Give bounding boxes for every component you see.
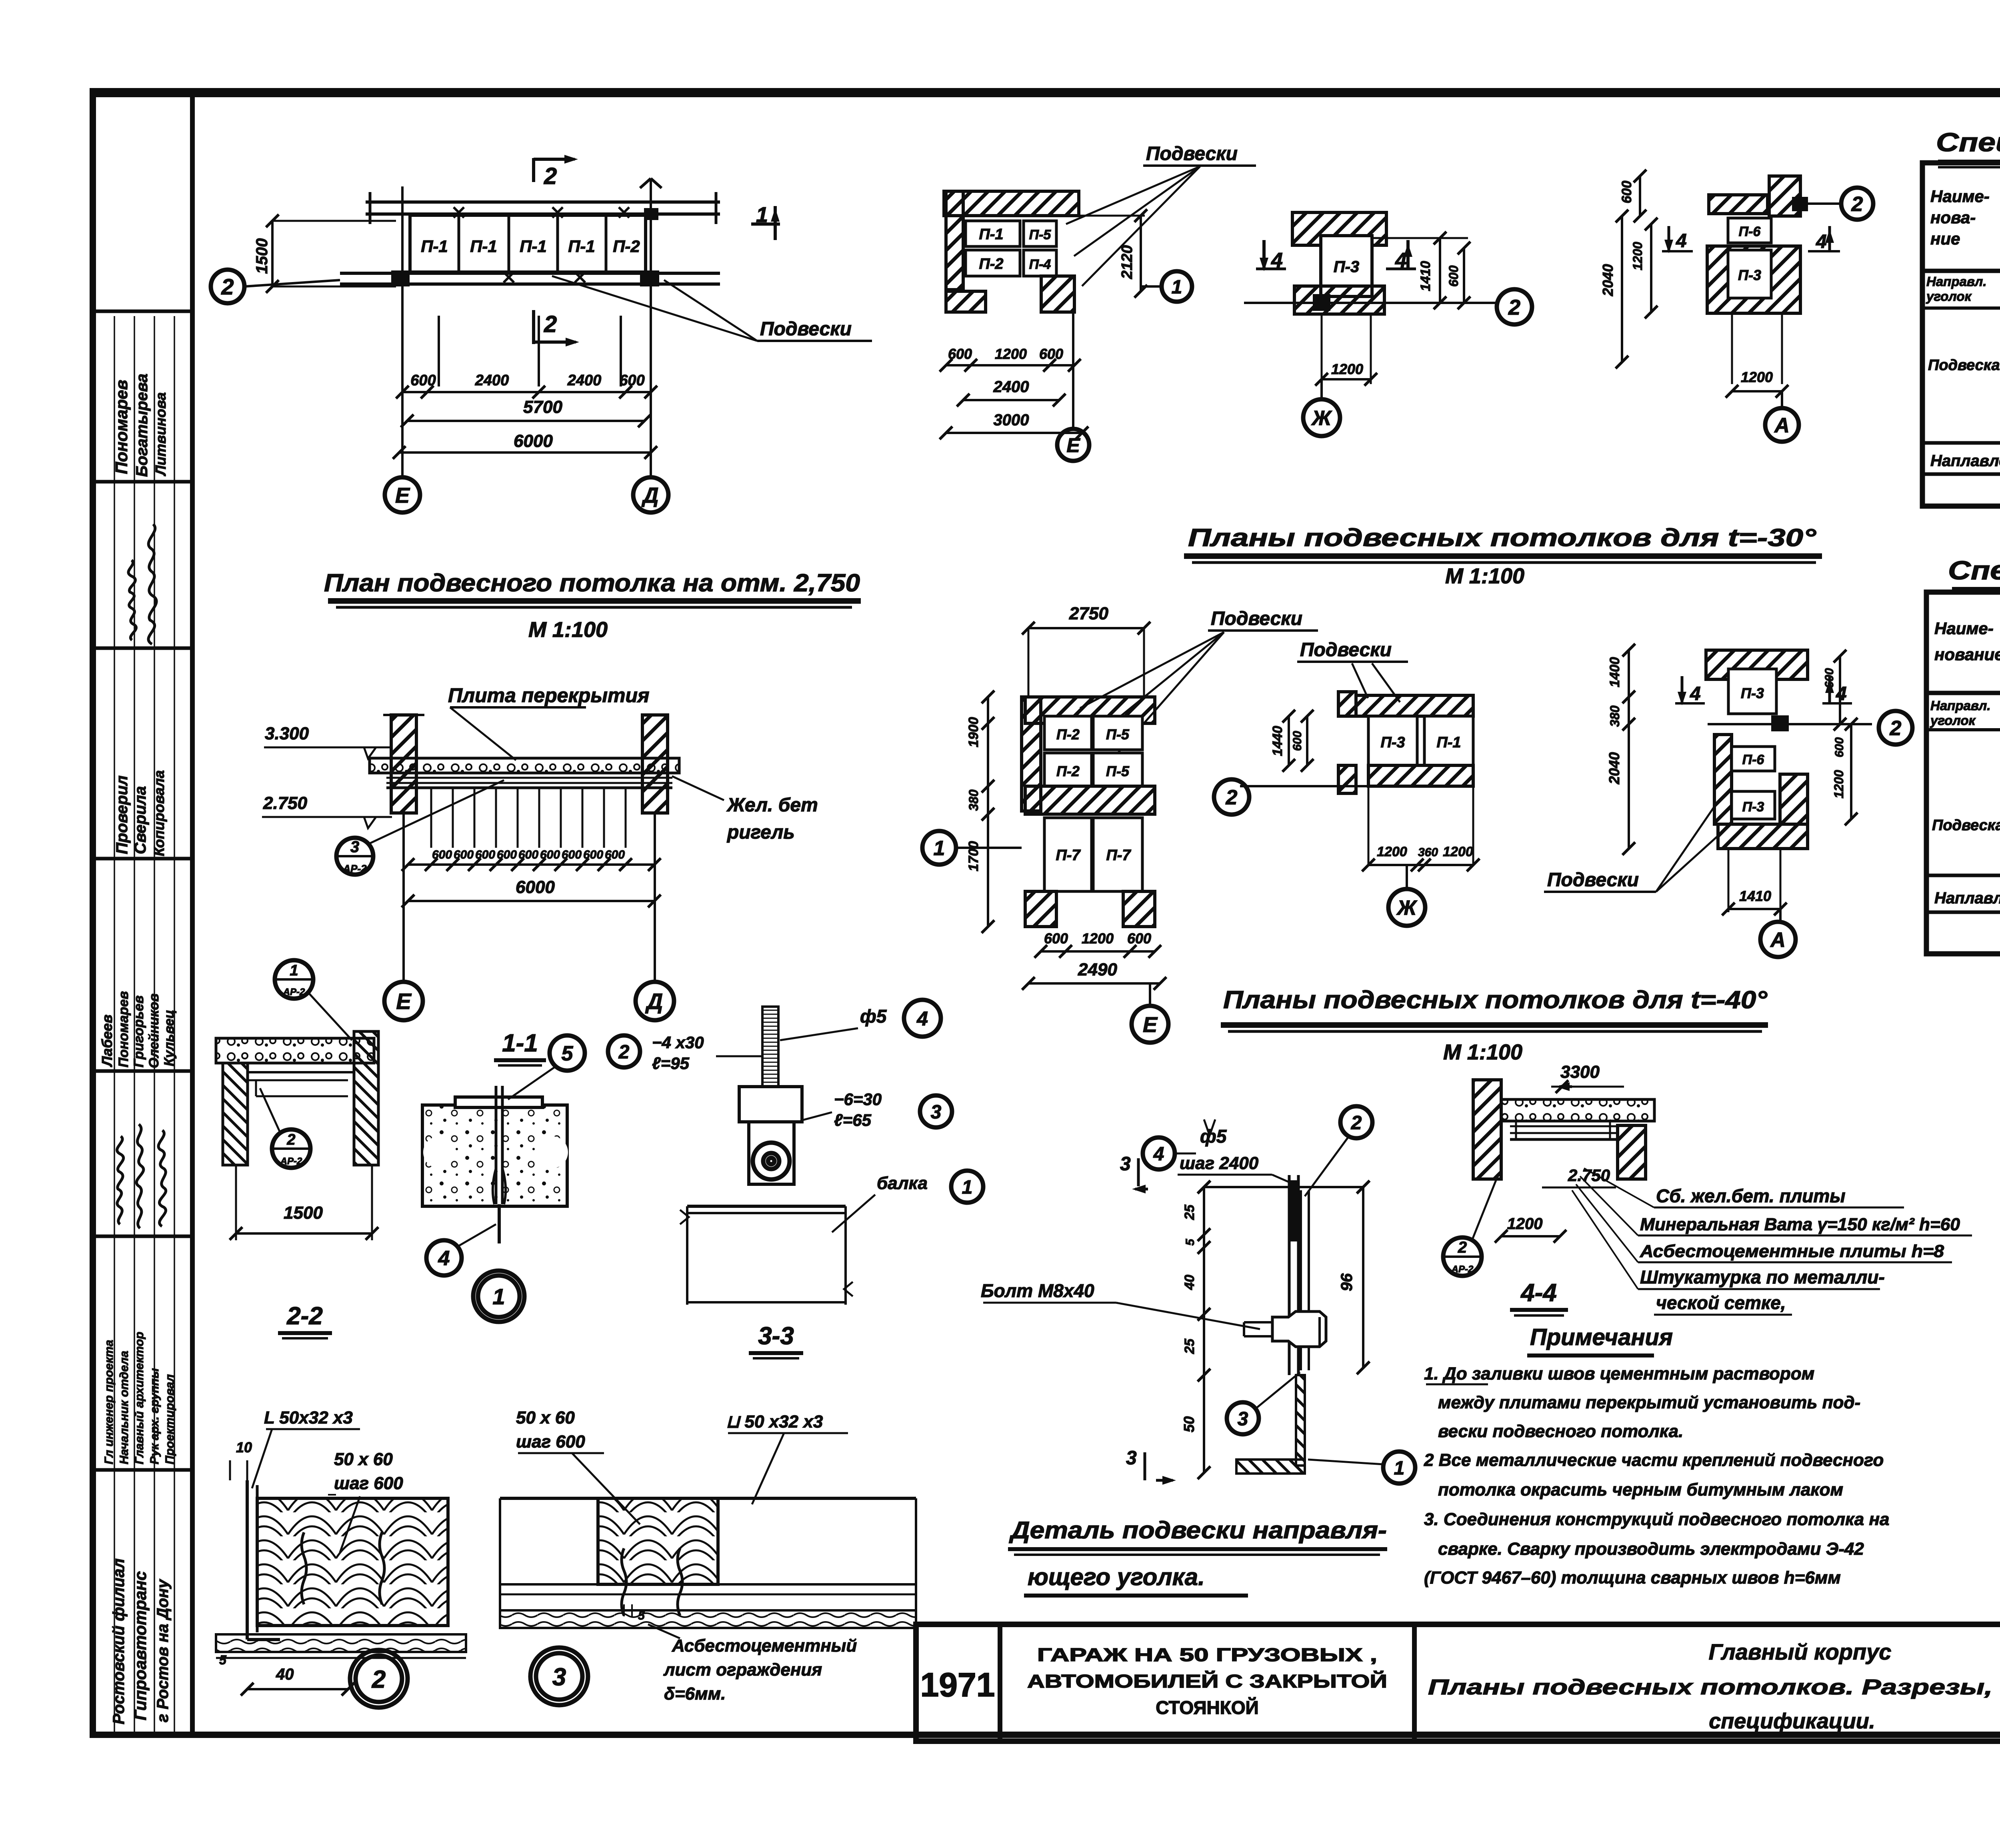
svg-text:3: 3 <box>350 838 359 856</box>
svg-text:П-7: П-7 <box>1056 847 1081 864</box>
svg-text:1971: 1971 <box>920 1666 995 1704</box>
svg-text:Подвески: Подвески <box>1547 869 1639 891</box>
detail 2: asbestos sheet band <box>216 1634 466 1652</box>
svg-text:Жел. бет: Жел. бет <box>726 795 818 816</box>
svg-text:Ж: Ж <box>1311 407 1332 430</box>
svg-text:96: 96 <box>1338 1273 1356 1291</box>
svg-text:4-4: 4-4 <box>1520 1279 1557 1307</box>
svg-text:СТОЯНКОЙ: СТОЯНКОЙ <box>1156 1697 1258 1718</box>
plan t-40 E: bottom pads hatch <box>1025 891 1056 927</box>
svg-text:ригель: ригель <box>726 822 795 843</box>
svg-text:600: 600 <box>1823 668 1836 688</box>
svg-text:Деталь подвески направля-: Деталь подвески направля- <box>1009 1517 1387 1544</box>
svg-text:25: 25 <box>1182 1338 1197 1354</box>
svg-text:Планы подвесных потолков. Ра: Планы подвесных потолков. Разрезы, Узлы. <box>1428 1675 2000 1699</box>
svg-text:1200: 1200 <box>1630 242 1645 270</box>
svg-text:1900: 1900 <box>966 717 981 747</box>
svg-text:Ж: Ж <box>1396 897 1418 920</box>
plan top-left: grid circle Е <box>385 477 420 513</box>
svg-text:1700: 1700 <box>966 841 981 871</box>
svg-text:5: 5 <box>562 1042 574 1065</box>
svg-text:Подвеска: Подвеска <box>1928 357 2000 374</box>
plan top-left: plate row <box>410 215 646 272</box>
svg-text:3: 3 <box>931 1101 942 1123</box>
svg-text:Д: Д <box>645 989 663 1014</box>
node E t-30: plates П-1 П-5 П-2 П-4 <box>966 221 1020 246</box>
svg-text:2400: 2400 <box>567 372 602 389</box>
plan t-40 Ж: grid circle Ж <box>1406 865 1408 889</box>
svg-text:600: 600 <box>1291 731 1304 751</box>
svg-text:2: 2 <box>1226 786 1238 809</box>
svg-text:4: 4 <box>1676 230 1687 252</box>
plan top-left: grid line E vertical <box>401 186 404 478</box>
svg-text:Проектировал: Проектировал <box>163 1374 176 1464</box>
svg-text:3: 3 <box>1126 1448 1137 1469</box>
svg-text:Подвески: Подвески <box>760 318 852 340</box>
svg-text:600: 600 <box>1127 930 1151 947</box>
node А t-30: plate П-3 <box>1728 250 1771 298</box>
svg-text:2: 2 <box>286 1131 295 1148</box>
detail 3-3: eye bolt <box>753 1143 790 1179</box>
title block <box>916 1624 2000 1741</box>
svg-text:Спецификация стали для t=-40°: Спецификация стали для t=-40° <box>1948 555 2000 585</box>
plan t-40 А: section mark 4 right <box>1828 676 1831 702</box>
svg-text:АР-2: АР-2 <box>280 1156 302 1167</box>
svg-text:П-2: П-2 <box>613 237 640 256</box>
section 4-4: top slab <box>1501 1099 1654 1121</box>
plan t-40 А: plate П-3 top <box>1728 669 1776 714</box>
stamp strip inner columns <box>114 316 115 1735</box>
svg-text:25: 25 <box>1182 1204 1197 1220</box>
svg-text:2: 2 <box>544 163 557 189</box>
svg-text:уголок: уголок <box>1926 289 1972 304</box>
svg-text:⊔ 50 x32 x3: ⊔ 50 x32 x3 <box>726 1412 823 1432</box>
svg-text:3300: 3300 <box>1560 1062 1600 1082</box>
plan t-40 E: top wall hatch <box>1025 697 1155 723</box>
detail 3: channel lines <box>500 1583 916 1586</box>
svg-text:3. Соединения конструкций по: 3. Соединения конструкций подвесного пот… <box>1424 1510 1890 1529</box>
svg-text:2750: 2750 <box>1069 604 1108 623</box>
hanger detail: bolt with nut <box>1272 1311 1326 1347</box>
plan t-40 А: grid circle А <box>1779 909 1782 922</box>
svg-text:Пономарев: Пономарев <box>112 380 131 474</box>
svg-text:Главный корпус: Главный корпус <box>1709 1639 1892 1664</box>
node А t-30: dim 1200 below <box>1731 314 1733 384</box>
svg-text:П-1: П-1 <box>520 237 547 256</box>
svg-text:1200: 1200 <box>1331 361 1363 377</box>
svg-text:2490: 2490 <box>1078 960 1117 979</box>
svg-text:Асбестоцементные плиты h=8: Асбестоцементные плиты h=8 <box>1640 1241 1944 1261</box>
svg-text:Подвеска: Подвеска <box>1932 817 2000 834</box>
detail 1: concrete block <box>422 1105 567 1206</box>
plan t-40 Ж: plates П-3 П-1 <box>1368 716 1417 765</box>
plan top-left: rails top <box>366 200 720 204</box>
svg-text:1: 1 <box>1172 276 1182 298</box>
section 4-4: circle 2/АР <box>1443 1237 1482 1276</box>
svg-text:4: 4 <box>916 1007 928 1030</box>
node А t-30: grid circle А <box>1781 391 1783 408</box>
svg-text:5700: 5700 <box>523 397 562 417</box>
svg-text:П-3: П-3 <box>1738 267 1761 283</box>
svg-text:2120: 2120 <box>1119 245 1136 280</box>
svg-text:П-7: П-7 <box>1106 847 1131 864</box>
svg-text:спецификации.: спецификации. <box>1709 1709 1875 1733</box>
node Ж t-30: grid circle Ж <box>1320 379 1323 400</box>
plan t-40 А: right hatch column <box>1780 774 1808 824</box>
svg-text:2400: 2400 <box>993 378 1029 396</box>
detail 1: anchor bolt <box>495 1086 498 1204</box>
svg-text:1200: 1200 <box>1443 844 1473 859</box>
svg-text:шаг 2400: шаг 2400 <box>1180 1153 1259 1173</box>
svg-text:5: 5 <box>219 1653 227 1667</box>
svg-text:Литвинова: Литвинова <box>152 392 169 477</box>
stamp strip signatures 2 <box>117 1136 124 1224</box>
svg-text:М 1:100: М 1:100 <box>528 618 608 642</box>
svg-text:Рук арх. группы: Рук арх. группы <box>148 1368 161 1464</box>
node Ж t-30: plate П-3 <box>1321 236 1372 296</box>
detail 3-3: beam <box>687 1205 846 1208</box>
svg-text:А: А <box>1774 414 1790 437</box>
hanger detail: left dim chain <box>1203 1187 1205 1473</box>
svg-text:2: 2 <box>221 274 234 299</box>
section 1-1: right column hatch <box>642 715 668 813</box>
hanger detail: top dim line <box>1204 1186 1363 1188</box>
svg-text:6000: 6000 <box>516 877 555 897</box>
svg-text:2.750: 2.750 <box>263 793 308 813</box>
svg-text:М 1:100: М 1:100 <box>1443 1040 1522 1064</box>
plan top-left: grid line Д vertical <box>650 178 652 478</box>
svg-text:10: 10 <box>236 1439 252 1456</box>
detail 1: circle 5 label <box>550 1035 585 1071</box>
svg-text:М 1:100: М 1:100 <box>1445 564 1524 588</box>
svg-text:П-2: П-2 <box>979 256 1003 272</box>
svg-text:П-3: П-3 <box>1334 258 1359 276</box>
svg-text:1: 1 <box>1394 1458 1405 1479</box>
svg-text:Олейников: Олейников <box>146 993 162 1068</box>
svg-text:Примечания: Примечания <box>1530 1324 1673 1350</box>
svg-text:Лабеев: Лабеев <box>99 1015 115 1067</box>
frame top edge thick <box>93 88 2000 97</box>
node E t-30: left wall hatch <box>946 191 963 290</box>
svg-text:Наплавленный металл,болты,гай: Наплавленный металл,болты,гайки, шайбы <box>1930 452 2000 470</box>
svg-text:П-3: П-3 <box>1380 734 1405 751</box>
plan t-40 E: plates П-7 П-7 <box>1044 818 1092 891</box>
svg-text:Направл.: Направл. <box>1926 274 1986 289</box>
detail 2-2 top: circle 1/АР <box>275 960 313 999</box>
svg-text:балка: балка <box>877 1173 928 1193</box>
plan t-40 А: grid line + circle 2 <box>1708 723 1872 725</box>
svg-text:4: 4 <box>1816 231 1827 252</box>
svg-text:П-1: П-1 <box>979 226 1003 243</box>
svg-text:50: 50 <box>1181 1416 1197 1432</box>
svg-text:уголок: уголок <box>1930 713 1976 728</box>
svg-text:Асбестоцементный: Асбестоцементный <box>672 1636 857 1656</box>
svg-text:Копировала: Копировала <box>151 770 167 856</box>
svg-text:1500: 1500 <box>253 238 271 274</box>
svg-text:3000: 3000 <box>994 411 1029 429</box>
hanger detail: circle 2 leader <box>1340 1106 1372 1138</box>
svg-text:Д: Д <box>642 483 659 507</box>
detail 2-2 top: left angle hatch <box>223 1063 248 1165</box>
svg-text:П-5: П-5 <box>1029 227 1052 242</box>
svg-text:5: 5 <box>1184 1238 1197 1245</box>
section 4-4: left wall hatch <box>1473 1080 1501 1179</box>
svg-text:Планы подвесных потолков дл: Планы подвесных потолков для t=-40° <box>1223 986 1768 1014</box>
node Ж t-30: lower wall hatch <box>1294 286 1384 314</box>
node Ж t-30: top wall hatch <box>1292 212 1386 245</box>
svg-text:П-3: П-3 <box>1741 685 1764 701</box>
svg-text:Плита перекрытия: Плита перекрытия <box>448 684 650 707</box>
steel spec table t=-30 grid <box>1922 163 2000 506</box>
svg-text:Кульвец: Кульвец <box>162 1010 177 1066</box>
svg-text:600: 600 <box>1044 930 1068 947</box>
plan top-left: hanger ticks <box>438 316 440 386</box>
svg-text:2: 2 <box>1890 717 1902 740</box>
svg-text:ф5: ф5 <box>860 1006 887 1027</box>
svg-text:1200: 1200 <box>1507 1215 1543 1233</box>
node А t-30: grid line + circle 2 <box>1800 202 1840 205</box>
hanger detail: angle bottom <box>1296 1375 1305 1466</box>
plan t-40 Ж: bottom hatch <box>1368 765 1473 786</box>
detail 3: asbestos band <box>500 1610 916 1628</box>
svg-text:П-1: П-1 <box>470 237 497 256</box>
section 1-1: left column hatch <box>391 715 416 813</box>
svg-text:Планы подвесных потолков дл: Планы подвесных потолков для t=-30° <box>1188 524 1817 552</box>
plan top-left: x-marks on rails <box>454 207 464 218</box>
svg-text:нование: нование <box>1934 645 2000 664</box>
detail 3: wood block <box>598 1498 718 1584</box>
section 1-1: grid circles Е Д <box>402 813 405 981</box>
svg-text:Подвески: Подвески <box>1300 639 1392 661</box>
plan t-40 А: top hatch <box>1706 650 1808 679</box>
detail 2: wood block with grain <box>257 1498 448 1626</box>
section 1-1: slab with aggregate <box>370 758 679 773</box>
detail 3-3: threaded rod <box>762 1007 778 1087</box>
svg-text:ющего уголка.: ющего уголка. <box>1028 1564 1205 1590</box>
stamp strip horizontal dividers <box>93 310 192 313</box>
svg-text:1440: 1440 <box>1270 726 1285 756</box>
svg-text:3: 3 <box>552 1663 566 1691</box>
svg-text:40: 40 <box>1182 1275 1197 1290</box>
detail 3-3: clamp body <box>739 1087 802 1122</box>
svg-text:ние: ние <box>1930 229 1960 248</box>
svg-text:2040: 2040 <box>1606 752 1622 785</box>
svg-text:1: 1 <box>290 962 298 979</box>
svg-text:Наиме-: Наиме- <box>1930 187 1990 206</box>
svg-text:Пономарев: Пономарев <box>116 991 131 1067</box>
detail 3: anchor screws <box>622 1548 626 1616</box>
svg-text:Минеральная Вата γ=150 кг/м² h: Минеральная Вата γ=150 кг/м² h=60 <box>1640 1215 1960 1234</box>
svg-text:Сб. жел.бет. плиты: Сб. жел.бет. плиты <box>1656 1185 1846 1206</box>
section 1-1: hangers <box>430 788 432 848</box>
svg-text:360: 360 <box>1418 846 1438 859</box>
svg-text:А: А <box>1770 929 1786 952</box>
svg-text:4: 4 <box>1690 683 1701 705</box>
svg-text:Е: Е <box>1143 1013 1158 1037</box>
section 1-1: ceiling layers <box>386 777 672 779</box>
detail 2-2 top: right wall hatch <box>354 1031 378 1165</box>
svg-text:600: 600 <box>1446 265 1461 287</box>
svg-text:3.300: 3.300 <box>265 724 309 743</box>
svg-text:2: 2 <box>1508 295 1520 319</box>
svg-text:1410: 1410 <box>1418 261 1433 291</box>
svg-text:1500: 1500 <box>284 1203 323 1223</box>
svg-text:АВТОМОБИЛЕЙ С ЗАКРЫТОЙ: АВТОМОБИЛЕЙ С ЗАКРЫТОЙ <box>1027 1671 1387 1692</box>
detail 3-3: labels left <box>608 1035 640 1067</box>
node А t-30: top hatches <box>1709 195 1768 214</box>
svg-text:Гипроавтотранс: Гипроавтотранс <box>131 1571 150 1720</box>
stamp strip right border <box>190 91 195 1735</box>
svg-text:6000: 6000 <box>514 431 553 451</box>
svg-text:600: 600 <box>1833 737 1846 757</box>
plan t-40 А: section mark 4 left <box>1681 676 1684 702</box>
svg-text:нова-: нова- <box>1930 208 1976 227</box>
svg-text:П-5: П-5 <box>1106 726 1130 743</box>
detail 1: top plate <box>455 1097 542 1107</box>
svg-text:вески подвесного потолка.: вески подвесного потолка. <box>1438 1422 1683 1441</box>
node Ж t-30: section mark 4 left <box>1262 240 1266 268</box>
svg-text:Проверил: Проверил <box>113 775 131 854</box>
svg-text:между плитами перекрытий ус: между плитами перекрытий установить под- <box>1438 1393 1860 1412</box>
svg-text:1200: 1200 <box>995 346 1027 362</box>
svg-text:г Ростов на Дону: г Ростов на Дону <box>154 1579 172 1722</box>
node А t-30: section marks 4 <box>1668 226 1670 250</box>
node E t-30: bottom pads hatch <box>946 291 986 312</box>
steel spec table t=-40 grid <box>1926 592 2000 954</box>
plan top-left: section mark 1 <box>751 222 780 226</box>
svg-text:380: 380 <box>1608 705 1622 727</box>
node А t-30: plate П-6 <box>1728 218 1771 243</box>
svg-text:600: 600 <box>1619 181 1634 204</box>
svg-text:2-2: 2-2 <box>286 1302 323 1330</box>
svg-text:Богатырева: Богатырева <box>133 374 151 477</box>
plan t-40 Ж: top hatch band <box>1356 695 1473 716</box>
svg-text:Наиме-: Наиме- <box>1934 619 1994 638</box>
svg-text:П-1: П-1 <box>421 237 448 256</box>
svg-text:Подвески: Подвески <box>1146 143 1238 164</box>
svg-text:Главный архитектор: Главный архитектор <box>133 1331 146 1464</box>
plan top-left: section mark 2 bottom <box>532 310 535 344</box>
svg-text:40: 40 <box>276 1666 294 1683</box>
svg-text:4: 4 <box>1153 1143 1164 1165</box>
plan t-40 E: grid circle Е <box>1149 983 1151 1005</box>
svg-text:П-6: П-6 <box>1742 752 1765 767</box>
svg-text:δ=6мм.: δ=6мм. <box>664 1684 726 1704</box>
svg-text:Наплавленный металл,болты,гай: Наплавленный металл,болты,гайки, шайбы <box>1934 889 2000 907</box>
detail 3: circle 3 <box>530 1648 588 1705</box>
svg-text:2400: 2400 <box>475 372 509 389</box>
svg-text:Штукатурка по металли-: Штукатурка по металли- <box>1640 1267 1885 1287</box>
node E t-30: grid circle Е <box>1072 312 1074 428</box>
hanger detail: vertical plates <box>1288 1175 1291 1375</box>
plan top-left: junction nodes <box>391 270 410 286</box>
svg-text:ф5: ф5 <box>1200 1126 1227 1147</box>
svg-text:АР-2: АР-2 <box>1451 1264 1474 1275</box>
svg-text:Е: Е <box>395 483 410 507</box>
svg-text:1: 1 <box>756 203 768 227</box>
svg-text:1: 1 <box>934 837 945 860</box>
plan t-40 А: dim 1410 <box>1728 849 1730 912</box>
plan t-40 А: left wall hatch <box>1714 735 1732 824</box>
svg-text:План подвесного потолка на: План подвесного потолка на отм. 2,750 <box>324 569 860 597</box>
svg-text:Е: Е <box>1066 434 1080 456</box>
svg-text:Сверила: Сверила <box>132 786 149 854</box>
plan t-40 E: left wall hatch <box>1022 697 1041 811</box>
svg-text:П-6: П-6 <box>1739 224 1761 239</box>
plan t-40 Ж: grid line circle 2 <box>1240 785 1392 787</box>
plan top-left: rails bottom <box>340 272 720 275</box>
detail 2-2 top: ceiling slab band <box>216 1038 374 1063</box>
svg-text:1: 1 <box>492 1284 505 1309</box>
svg-text:1410: 1410 <box>1739 888 1771 904</box>
svg-text:Григорьев: Григорьев <box>131 995 146 1067</box>
plan top-left: grid circle Д <box>633 477 668 513</box>
hanger detail: circle 3 <box>1227 1402 1259 1434</box>
svg-text:2: 2 <box>1458 1239 1467 1256</box>
detail 2-2 top: circle 2/АР <box>272 1129 310 1168</box>
svg-text:АР-2: АР-2 <box>283 987 305 997</box>
svg-text:1-1: 1-1 <box>502 1029 538 1057</box>
stamp strip signatures 1 <box>128 560 136 640</box>
svg-text:−6=30: −6=30 <box>834 1090 882 1109</box>
svg-text:2040: 2040 <box>1600 264 1616 296</box>
svg-text:П-2: П-2 <box>1056 726 1080 743</box>
svg-text:П-1: П-1 <box>1436 734 1461 751</box>
svg-text:5: 5 <box>638 1609 645 1622</box>
svg-text:3-3: 3-3 <box>758 1322 794 1350</box>
svg-text:П-1: П-1 <box>568 237 595 256</box>
svg-text:Болт М8х40: Болт М8х40 <box>981 1280 1094 1301</box>
svg-text:1400: 1400 <box>1607 657 1622 687</box>
svg-text:2: 2 <box>372 1666 386 1693</box>
node E t-30: circle 1 <box>1162 271 1192 302</box>
svg-text:−4 x30: −4 x30 <box>652 1033 704 1052</box>
plan t-40 E: middle band hatch <box>1025 786 1155 814</box>
section 1-1: circle 3/АР <box>336 838 373 875</box>
svg-text:2 Все металлические части кр: 2 Все металлические части креплений подв… <box>1424 1450 1884 1470</box>
svg-text:4: 4 <box>438 1247 450 1270</box>
detail 2: angle profile <box>246 1480 249 1640</box>
svg-text:1200: 1200 <box>1832 770 1846 798</box>
svg-text:П-2: П-2 <box>1056 763 1080 779</box>
svg-text:ℓ=95: ℓ=95 <box>652 1054 690 1073</box>
svg-text:2: 2 <box>544 311 557 337</box>
svg-text:Е: Е <box>396 989 412 1014</box>
svg-text:Гл инженер проекта: Гл инженер проекта <box>102 1340 116 1464</box>
svg-text:потолка окрасить черным бит: потолка окрасить черным битумным лаком <box>1438 1480 1843 1500</box>
detail 1: circle 4 label <box>426 1240 462 1275</box>
node Ж t-30: grid line and circle 2 <box>1244 302 1496 304</box>
svg-text:ГАРАЖ НА 50 ГРУЗОВЫХ ,: ГАРАЖ НА 50 ГРУЗОВЫХ , <box>1037 1644 1377 1665</box>
svg-text:2: 2 <box>618 1041 630 1063</box>
plan top-left: section mark 2 top <box>532 158 535 182</box>
svg-text:ческой сетке,: ческой сетке, <box>1656 1292 1786 1313</box>
svg-text:Ростовский филиал: Ростовский филиал <box>110 1558 128 1724</box>
svg-text:АР-2: АР-2 <box>342 863 367 875</box>
svg-text:лист ограждения: лист ограждения <box>663 1660 822 1680</box>
svg-text:2.750: 2.750 <box>1568 1166 1610 1185</box>
svg-text:(ГОСТ 9467–60) толщина сварны: (ГОСТ 9467–60) толщина сварных швов h=6м… <box>1424 1568 1841 1588</box>
svg-text:1200: 1200 <box>1082 930 1114 947</box>
plan t-40 E: circle 1 <box>922 831 956 865</box>
node E t-30: top wall hatch <box>944 191 1079 216</box>
svg-text:ℓ=65: ℓ=65 <box>834 1111 872 1129</box>
svg-text:Начальник отдела: Начальник отдела <box>118 1351 131 1464</box>
svg-text:1. До заливки швов цементны: 1. До заливки швов цементным раствором <box>1424 1364 1814 1383</box>
svg-text:600: 600 <box>1039 346 1063 362</box>
hanger detail: circle 1 <box>1383 1452 1415 1484</box>
svg-text:1: 1 <box>962 1177 973 1198</box>
